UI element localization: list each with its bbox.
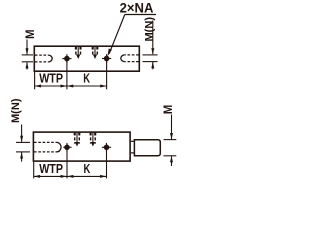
leader line for 2×NA [107, 15, 156, 57]
extension line B body-left [33, 162, 35, 179]
top tapped hole B1 (hidden lines + arrow) [75, 133, 80, 147]
dimension M(N) (bottom-left) [16, 125, 30, 162]
dimension M(N) (top-right) [143, 21, 158, 70]
node A1 (hole position mark) [62, 54, 71, 63]
body outline A (top view, plain block) [34, 46, 139, 71]
top tapped hole A2 (hidden lines + arrow) [93, 47, 98, 59]
svg-text:K: K [84, 161, 91, 176]
svg-text:WTP: WTP [39, 70, 63, 85]
extension line A node2 [106, 61, 108, 89]
dimension K (B) [67, 175, 107, 178]
svg-text:2×NA: 2×NA [120, 0, 154, 15]
node B2 (hole position mark) [102, 143, 111, 152]
top tapped hole A1 (hidden lines + arrow) [76, 47, 81, 59]
node A2 (hole position mark) [102, 54, 111, 63]
top tapped hole B2 (hidden lines + arrow) [91, 133, 96, 147]
extension line B node1 [66, 150, 68, 179]
svg-text:M(N): M(N) [10, 98, 22, 123]
dimension WTP (A) [35, 85, 67, 88]
tapped hole B-left (hidden lines) [34, 142, 61, 152]
svg-text:M: M [25, 29, 37, 39]
svg-text:M: M [163, 105, 175, 115]
svg-text:K: K [83, 70, 90, 85]
extension line A body-left [34, 72, 36, 89]
extension line B node2 [106, 150, 108, 179]
svg-text:M(N): M(N) [143, 17, 155, 42]
node B1 (hole position mark) [63, 143, 71, 152]
stud neck B [131, 141, 135, 153]
body outline B (bottom view, block with stud) [33, 132, 130, 161]
dimension M (bottom-right, stud thread) [164, 115, 177, 167]
threaded stud B [134, 140, 160, 156]
tapped hole A-right (hidden lines) [121, 55, 139, 62]
svg-text:WTP: WTP [39, 161, 63, 176]
dimension M (top-left) [22, 40, 33, 70]
tapped hole A-left (hidden lines) [35, 55, 52, 62]
extension line A node1 [66, 61, 68, 89]
dimension WTP (B) [34, 175, 67, 178]
dimension K (A) [67, 85, 107, 88]
